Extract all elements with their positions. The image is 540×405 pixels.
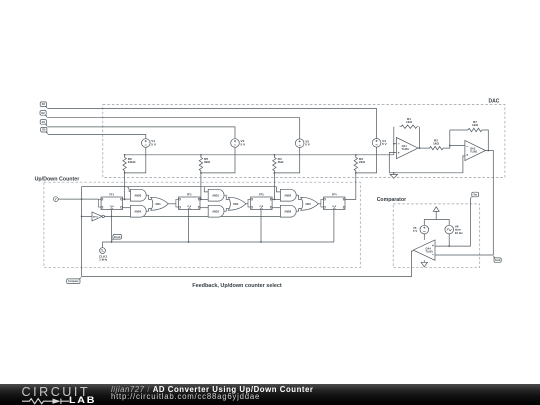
svg-text:Compare: Compare: [68, 280, 79, 283]
voltage source V3: [295, 139, 304, 148]
wire D0 to V1: [48, 135, 146, 139]
svg-text:FF1: FF1: [110, 193, 115, 196]
svg-text:CLK: CLK: [110, 206, 115, 208]
wire feedback from comparator output: [82, 251, 414, 277]
wire VCC stem: [435, 211, 437, 219]
wire OA1 output to R1 feedback: [418, 127, 420, 148]
wire OA4 + input: [435, 245, 471, 247]
op-amp OA2: [465, 140, 486, 160]
flag Aout: [494, 258, 501, 262]
wire 5 source lead down to R5 bottom: [201, 147, 235, 173]
wire VCC tee to V5 and V6: [424, 220, 449, 226]
wire clock to FF4 CLK: [333, 210, 335, 243]
junction R3 bottom tap: [355, 172, 357, 174]
wire FF1 Qbar to AND4 input a: [123, 207, 131, 209]
wire AND2 out to OR2 input b: [224, 209, 229, 212]
svg-text:16kΩ: 16kΩ: [128, 160, 136, 164]
svg-text:1kΩ: 1kΩ: [472, 123, 478, 127]
svg-text:TL081: TL081: [402, 148, 410, 151]
wire bus riser and feedback vertical to OA1 inverting input: [393, 127, 395, 155]
junction INV1 bus at FF1 CLK crossing: [111, 216, 113, 218]
svg-text:CLK: CLK: [259, 206, 264, 208]
input pin f: [53, 197, 58, 202]
resistor R7: [467, 128, 484, 131]
or gate OR2: [228, 197, 246, 210]
wire clock bus: [103, 242, 334, 248]
input flag D2: [40, 111, 46, 116]
wire clock to FF1 CLK: [111, 210, 113, 243]
resistor R4: [273, 155, 276, 173]
wire D1 to V2: [47, 127, 235, 139]
wire tap R3 to FF4 Q: [345, 173, 356, 200]
op-amp OA4 comparator: [413, 240, 435, 260]
svg-text:TL081: TL081: [426, 250, 434, 253]
and gate AND6: [280, 205, 296, 217]
wire V5 to OA4 supply pin: [423, 234, 425, 240]
wire + input up to Vin flag: [470, 198, 472, 247]
svg-text:FF3: FF3: [259, 193, 264, 196]
flip-flop FF3: [248, 197, 272, 210]
junction clock bus FF2: [188, 241, 190, 243]
svg-text:OR1: OR1: [156, 203, 162, 206]
wire select drop to AND3 input a: [127, 187, 131, 192]
wire tap R4 to FF3 Q: [273, 173, 275, 200]
voltage source V5: [420, 225, 429, 234]
sine source V6: [445, 225, 454, 234]
wire into OA1 - input: [394, 143, 397, 145]
svg-text:5 V: 5 V: [305, 143, 311, 147]
and gate AND3: [130, 189, 146, 201]
clock source CLK1: [100, 248, 106, 254]
junction R4 top on bus: [274, 154, 276, 156]
junction R6 bottom tap: [124, 172, 126, 174]
wire D3 to V4: [47, 109, 376, 139]
wire AND4 out to OR1 input b: [146, 209, 151, 212]
flip-flop FF1: [98, 197, 122, 210]
svg-text:2kΩ: 2kΩ: [359, 160, 365, 164]
svg-text:5 V: 5 V: [241, 142, 247, 146]
svg-text:INV1: INV1: [93, 216, 99, 218]
input flag D1: [40, 120, 46, 125]
wire OR2 out to FF3: [246, 203, 248, 205]
DAC section dashed box: [103, 105, 505, 178]
wire OA2 output down right side to comparator: [486, 151, 494, 256]
wire R7 right to OA2 output: [484, 130, 489, 151]
wire FF1 Q to AND3 input b: [123, 198, 131, 200]
flag Vin: [472, 192, 479, 197]
wire D2 to V3: [47, 118, 300, 139]
svg-text:1kΩ: 1kΩ: [433, 141, 439, 145]
svg-text:Clock: Clock: [114, 236, 121, 239]
inverter INV1: [92, 212, 102, 221]
wire FF2 Qbar to AND2 input a: [200, 207, 208, 209]
or gate OR1: [151, 197, 169, 210]
wire select bus segment 3: [204, 186, 276, 188]
svg-text:AND6: AND6: [284, 210, 291, 213]
wire 4 source lead down to R4 bottom: [274, 147, 299, 173]
input flag D3: [40, 102, 46, 107]
junction OA1 output: [419, 147, 421, 149]
ground: [390, 173, 397, 179]
wire R2 to OA2 - input: [445, 146, 465, 149]
wire 3 source lead down to R3 bottom: [356, 147, 377, 173]
voltage source V2: [231, 139, 240, 148]
resistor R5: [199, 155, 202, 173]
and gate AND5: [280, 189, 296, 201]
wire AND6 out to OR3 input b: [296, 209, 301, 212]
input flag D0: [41, 127, 47, 132]
resistor R6: [123, 155, 126, 173]
svg-text:Vin: Vin: [473, 194, 477, 197]
svg-text:5 V: 5 V: [151, 142, 157, 146]
svg-text:OR2: OR2: [233, 203, 239, 206]
junction clock bus FF1: [111, 241, 113, 243]
wire 6 source lead down to R6 bottom: [125, 147, 146, 173]
flip-flop FF4: [321, 197, 345, 210]
svg-text:10 Hz: 10 Hz: [455, 231, 464, 235]
flag Clock: [113, 235, 122, 240]
wire select drop to AND5 input a: [277, 187, 281, 192]
wire tap R6 to FF1 Q: [124, 173, 126, 200]
junction R3 top on bus: [355, 154, 357, 156]
svg-text:AND1: AND1: [212, 194, 219, 197]
wire tap R5 to FF2 Q: [200, 173, 202, 200]
Up/Down Counter section dashed box: [44, 182, 360, 268]
junction FF3 Q tap: [274, 199, 276, 201]
svg-text:4kΩ: 4kΩ: [278, 160, 284, 164]
svg-text:CLK: CLK: [332, 206, 337, 208]
voltage source V4: [372, 139, 381, 148]
wire INV1 output bus to down AND gates: [104, 215, 280, 217]
wire select drop to AND1 input a: [204, 187, 208, 192]
svg-text:Up/Down Counter: Up/Down Counter: [35, 177, 80, 183]
voltage source V1: [142, 139, 151, 148]
junction OA2 - node: [449, 145, 451, 147]
resistor R1: [400, 125, 419, 128]
svg-text:FF2: FF2: [187, 193, 192, 196]
wire OR3 out to FF4: [318, 203, 321, 205]
junction FF2 Q tap: [200, 199, 202, 201]
junction R5 bottom tap: [200, 172, 202, 174]
wire ground to OA2 + input: [394, 156, 465, 173]
junction R6 top on bus: [124, 154, 126, 156]
wire select bus segment 2: [82, 186, 205, 188]
wire AND5 out to OR3 input a: [296, 195, 301, 199]
flip-flop FF2: [176, 197, 200, 210]
svg-text:FF4: FF4: [332, 193, 337, 196]
wire summing bus node A: [125, 154, 394, 156]
wire FF3 Q to AND5 input b: [272, 198, 280, 200]
wire AND3 out to OR1 input a: [146, 195, 151, 199]
wire f to FF1 T input: [58, 198, 98, 200]
junction select to INV1 input: [81, 216, 83, 218]
wire R7 feedback vertical: [449, 130, 451, 146]
and gate AND1: [208, 189, 224, 201]
wire OA1 out to R2: [420, 147, 429, 149]
svg-text:1kΩ: 1kΩ: [406, 120, 412, 124]
junction FF1 Q tap: [124, 199, 126, 201]
resistor R2: [428, 146, 445, 149]
resistor R3: [354, 155, 357, 173]
VCC arrow supply: [433, 207, 439, 212]
wire clock to FF2 CLK: [188, 210, 190, 243]
junction R5 top on bus: [200, 154, 202, 156]
wire select to INV1: [82, 215, 92, 217]
junction V6 on + input wire: [448, 245, 450, 247]
svg-text:5 V: 5 V: [413, 229, 417, 233]
svg-text:5 V: 5 V: [382, 142, 388, 146]
wire Compare select line up and along top: [82, 187, 127, 277]
and gate AND2: [208, 205, 224, 217]
wire R7 left lead: [450, 129, 467, 131]
wire OA4 - input to DAC output node: [435, 254, 493, 256]
junction R4 bottom tap: [274, 172, 276, 174]
svg-text:OR3: OR3: [306, 203, 312, 206]
svg-text:8kΩ: 8kΩ: [204, 160, 210, 164]
junction ground node: [393, 172, 395, 174]
wire OR1 out to FF2: [168, 203, 176, 205]
wire OA1 + input to ground: [389, 153, 396, 173]
flag Compare: [67, 279, 80, 284]
VEE arrow supply: [421, 262, 427, 267]
svg-text:1 kHz: 1 kHz: [99, 258, 108, 262]
and gate AND4: [130, 205, 146, 217]
svg-text:TL081: TL081: [470, 151, 478, 154]
junction OA2 output: [487, 150, 489, 152]
svg-text:Feedback, Up/down counter sele: Feedback, Up/down counter select: [192, 283, 282, 289]
wire clock to FF3 CLK: [260, 210, 262, 243]
junction select with f wire: [81, 198, 83, 200]
wire FF3 Qbar to AND6 input a: [272, 207, 280, 209]
wire AND1 out to OR2 input a: [224, 195, 229, 199]
wire FF2 Q to AND1 input b: [200, 198, 208, 200]
svg-text:DAC: DAC: [489, 99, 500, 105]
junction OA1 - node: [393, 143, 395, 145]
svg-text:CLK: CLK: [187, 206, 192, 208]
junction clock bus FF3: [260, 241, 262, 243]
wire OA4 to VEE arrow: [423, 260, 425, 262]
svg-text:AND2: AND2: [212, 210, 219, 213]
svg-text:Comparator: Comparator: [377, 197, 406, 203]
Comparator section dashed box: [393, 204, 480, 268]
wire V6 to OA4 + input: [448, 234, 450, 246]
svg-text:AND3: AND3: [134, 194, 141, 197]
svg-text:AND5: AND5: [284, 194, 291, 197]
op-amp OA1: [396, 138, 418, 159]
svg-text:Aout: Aout: [495, 259, 501, 262]
svg-text:AND4: AND4: [134, 210, 141, 213]
or gate OR3: [301, 197, 319, 210]
